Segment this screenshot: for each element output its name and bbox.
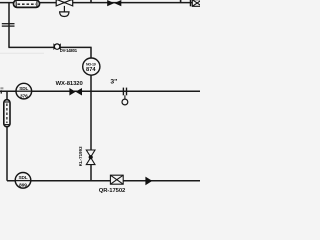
svg-text:QR-17502: QR-17502 (99, 188, 126, 194)
svg-text:DV-14801: DV-14801 (60, 48, 78, 53)
svg-text:874: 874 (86, 67, 96, 73)
svg-text:SDL: SDL (19, 86, 28, 91)
svg-text:WX-81320: WX-81320 (56, 81, 84, 87)
svg-text:3": 3" (110, 79, 117, 86)
svg-text:SDL: SDL (18, 175, 27, 180)
svg-text:KL-71993: KL-71993 (78, 146, 83, 166)
svg-text:NO-19: NO-19 (86, 62, 96, 66)
svg-text:376: 376 (20, 93, 28, 99)
svg-text:899: 899 (19, 183, 27, 189)
